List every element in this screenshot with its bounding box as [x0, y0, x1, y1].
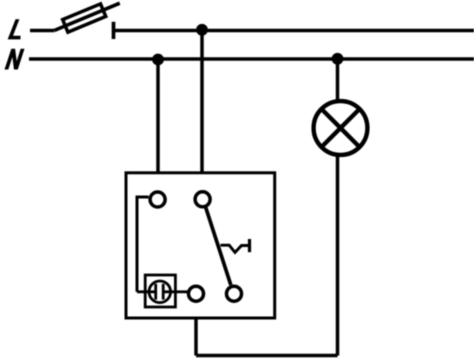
wire N drop to switch: [156, 60, 160, 173]
wire switch output drop: [194, 318, 198, 356]
wire internal left (T1 to neon lamp): [137, 197, 149, 292]
neon lead right (to T3): [163, 290, 187, 293]
wire N drop to lamp: [336, 59, 340, 103]
wire bottom return: [196, 354, 338, 358]
neon indicator H1: bulb circle: [149, 281, 171, 303]
terminal T2 top-right: [195, 192, 210, 207]
wire L drop to switch: [200, 30, 204, 173]
wire lamp to bottom: [336, 155, 340, 356]
node on N line (lamp): [332, 53, 344, 65]
terminal T1 top-left: [150, 192, 165, 207]
switch blade S1: [206, 208, 231, 285]
fixed contact of fuse switch: [112, 22, 116, 39]
terminal T3 bottom-middle: [189, 286, 204, 301]
fuse F1 (fuse-switch-disconnector, open blade): [52, 0, 123, 37]
neon electrode left: [154, 284, 157, 300]
node on N line (switch drop): [152, 54, 164, 66]
neon indicator H1: square: [145, 275, 175, 307]
neon electrode right: [162, 284, 165, 300]
terminal T4 bottom-right: [227, 286, 242, 301]
neon lead left: [137, 290, 156, 293]
label N: [5, 49, 25, 70]
actuator linkage symbol: [221, 245, 250, 252]
actuator end bar: [248, 239, 251, 252]
wire L line: [114, 29, 474, 33]
node on L line: [196, 24, 208, 36]
switch unit box: [126, 173, 275, 318]
lamp E1 (circle with cross): [314, 101, 368, 155]
label L: [8, 19, 21, 39]
wire N line: [29, 57, 474, 61]
wire L feed: [30, 29, 54, 33]
